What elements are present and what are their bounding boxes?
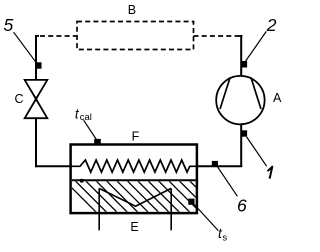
wire: bottom-right horizontal (corner to box F right side) [197, 165, 243, 167]
wire: right vertical (corner to compressor top) [240, 35, 242, 77]
svg-text:A: A [273, 91, 282, 105]
leader line to label 1 [247, 137, 267, 166]
wire: dashed horizontal left (to condenser B) [40, 35, 77, 37]
leader line from t_cal to tap square [84, 120, 97, 139]
expansion valve C upper triangle [25, 80, 48, 101]
svg-text:F: F [132, 130, 140, 144]
compressor A left vane chord [220, 77, 230, 109]
node 5 (black square tap) [36, 62, 42, 68]
expansion valve C white fill [25, 80, 48, 118]
svg-text:C: C [14, 92, 23, 106]
condenser B dashed rectangle [77, 22, 194, 50]
box E top line (separator) [72, 179, 196, 181]
heater coil (zigzag resistor) [71, 160, 197, 172]
svg-text:2: 2 [266, 15, 277, 35]
node 2 (black square tap) [241, 61, 247, 68]
t_s tap square inside E [188, 199, 194, 205]
wire: right vertical (compressor bottom to lower corner) [240, 124, 242, 168]
svg-text:6: 6 [237, 196, 247, 216]
leader line to label 6 [218, 167, 238, 196]
svg-text:E: E [130, 220, 138, 234]
expansion valve C lower triangle [25, 98, 48, 119]
tick square under separator [80, 179, 84, 183]
t_cal tap square on box F top edge [94, 139, 101, 144]
calorimeter box F [71, 145, 197, 214]
leader line to label 2 [245, 31, 266, 61]
wire: bottom-left horizontal (corner to box F left side) [35, 165, 71, 167]
svg-text:5: 5 [4, 15, 14, 35]
sensor V element inside E [99, 188, 171, 206]
wire: top-left corner stub [35, 35, 39, 37]
wire: top-left vertical (corner to valve top) [35, 35, 37, 80]
leader line from t_s tap to label [192, 202, 219, 231]
wire: top-right corner stub [239, 35, 242, 37]
leader line from label 5 to node 5 [14, 32, 36, 62]
node 1 (black square tap) [241, 130, 247, 136]
label 1 [268, 167, 273, 179]
hatched block E [62, 178, 225, 216]
svg-text:B: B [128, 3, 136, 17]
wire: left vertical (valve bottom to lower-left corner) [35, 118, 37, 167]
compressor A right vane chord [251, 77, 261, 109]
sensor left leg [98, 188, 100, 230]
wire: dashed horizontal right (B to right corner) [194, 35, 241, 37]
node 6 (black square tap) [212, 161, 218, 167]
compressor A circle [216, 76, 264, 124]
sensor right leg [170, 188, 172, 230]
